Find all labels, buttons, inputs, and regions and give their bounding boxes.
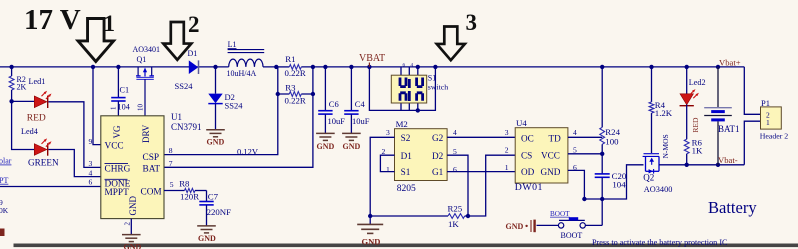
svg-text:100: 100 [605,136,619,146]
svg-text:AO3401: AO3401 [133,45,161,54]
IC U1 CN3791 body [101,116,164,219]
wire: VIN to VCC pin 9 [93,67,101,145]
svg-text:4: 4 [411,64,414,69]
svg-text:1: 1 [505,163,509,172]
svg-text:TD: TD [549,133,562,143]
diode D2 SS24 [215,67,217,94]
connector P1 Header 2 [761,107,782,129]
svg-text:C1: C1 [120,86,130,95]
svg-text:GND: GND [128,196,138,216]
svg-text:SS24: SS24 [225,101,244,111]
svg-text:BAT: BAT [143,165,161,175]
svg-text:1K: 1K [692,146,703,156]
svg-text:CN3791: CN3791 [171,122,202,132]
capacitor C1 104 [117,67,119,97]
resistor R4 1.2K [651,67,653,102]
svg-text:104: 104 [612,179,626,189]
svg-text:Header 2: Header 2 [760,132,788,141]
wire: M2 S2 pin3 to ground rail [370,137,394,216]
svg-text:Led1: Led1 [29,77,46,86]
svg-text:D2: D2 [432,151,444,161]
capacitor C7 220NF [206,191,208,202]
wire: Led1 cathode to CHRG pin 3 [49,102,101,168]
svg-text:DRV: DRV [141,124,151,143]
IC M2 8205 (dual MOSFET) body [395,129,448,181]
capacitor C20 104 [595,174,610,177]
svg-text:6: 6 [403,64,406,69]
svg-text:MPPT: MPPT [105,188,130,198]
svg-text:GND: GND [198,234,216,243]
svg-text:10uF: 10uF [352,116,370,126]
wire: M2 D1-S1 loop [380,155,394,171]
svg-text:8: 8 [169,146,173,155]
svg-text:U1: U1 [171,112,182,122]
wire: M2 D2 pin5 down to sense rail [447,155,468,216]
svg-text:AO3400: AO3400 [644,185,673,194]
ground under D2 [206,130,225,137]
resistor R2 2K [11,67,13,76]
svg-text:GND: GND [506,222,524,231]
svg-text:L1: L1 [228,40,237,49]
wire: Led4 cathode to DONE pin 4 [49,150,101,177]
inductor coil [217,66,276,68]
svg-text:GND: GND [541,167,561,177]
svg-text:1K: 1K [448,219,459,229]
svg-text:3: 3 [89,159,93,168]
svg-text:N-MOS: N-MOS [661,134,670,158]
svg-text:6: 6 [89,178,93,187]
svg-text:R25: R25 [448,203,463,213]
wire COM pin 5 [164,190,185,192]
svg-text:GREEN: GREEN [28,158,59,168]
svg-text:3: 3 [505,128,509,137]
svg-text:0.22R: 0.22R [285,96,306,106]
sheet border bottom bar [14,244,798,248]
svg-text:RED: RED [27,113,46,123]
svg-text:G1: G1 [432,167,444,177]
svg-text:0.12V: 0.12V [237,147,259,157]
svg-text:CS: CS [521,151,532,161]
svg-text:S1: S1 [428,74,436,83]
resistor R24 100 [601,67,603,127]
svg-text:COM: COM [141,188,162,198]
svg-text:8205: 8205 [397,184,416,194]
svg-text:VBAT: VBAT [359,53,385,64]
svg-text:GND: GND [362,236,381,246]
U1 GND pin wire + ground [130,219,132,235]
svg-text:Q2: Q2 [643,173,654,183]
svg-text:GND: GND [207,137,225,146]
svg-text:2: 2 [505,146,509,155]
svg-text:CHRG: CHRG [105,165,131,175]
wire + net label MPPT (clipped) [0,186,101,188]
svg-text:1: 1 [386,165,390,174]
svg-text:Vbat+: Vbat+ [719,57,741,67]
svg-text:4: 4 [573,128,577,137]
svg-text:P1: P1 [761,98,770,108]
svg-text:U4: U4 [516,118,527,128]
annotation arrow 1 [78,19,114,62]
svg-text:GND: GND [343,142,361,151]
svg-text:1: 1 [104,11,116,36]
svg-text:17 V: 17 V [24,4,81,36]
svg-text:switch: switch [428,82,448,91]
svg-text:olar: olar [0,157,12,166]
svg-text:C7: C7 [208,192,219,202]
svg-text:10: 10 [137,104,145,112]
svg-text:S2: S2 [401,133,411,143]
svg-text:R8: R8 [179,178,190,188]
red fragment at left edge (clipped GND) [0,229,5,237]
svg-text:M2: M2 [396,119,408,129]
svg-text:BAT1: BAT1 [718,124,740,134]
svg-text:1: 1 [766,118,770,127]
svg-text:SS24: SS24 [175,81,194,91]
svg-text:CSP: CSP [143,153,160,163]
svg-text:Press to activate the battery: Press to activate the battery protection… [592,238,728,247]
node: LED anode junction [9,99,13,103]
LED Led2 RED [686,67,688,94]
resistor R3 0.22R (parallel) [164,67,278,155]
svg-text:BOOT: BOOT [550,210,570,218]
svg-text:S1: S1 [401,167,411,177]
svg-text:1.2K: 1.2K [655,108,673,118]
svg-text:PT: PT [0,176,8,185]
svg-text:R1: R1 [285,54,295,64]
capacitor C6 10uF [324,67,326,110]
svg-text:220NF: 220NF [207,207,232,217]
svg-text:4: 4 [89,169,93,178]
svg-text:3: 3 [386,128,390,137]
wire: TD pin4 to R24 column [568,136,602,138]
svg-text:BOOT: BOOT [561,231,583,240]
svg-text:2K: 2K [17,83,27,92]
annotation arrow 3 [437,27,465,61]
switch S1 body [391,75,426,103]
svg-text:D1: D1 [188,49,198,58]
svg-text:2: 2 [188,12,200,37]
wire: GND pin6 down to C20 node [568,170,602,199]
svg-text:4: 4 [453,128,457,137]
svg-text:5: 5 [170,180,174,189]
wire to Led1 and Led4 anodes [12,101,35,149]
svg-text:VCC: VCC [541,151,560,161]
svg-text:C6: C6 [329,99,339,109]
wire: rail to P1 pin2 / Vbat- to pin1 [744,67,760,114]
GND power bar symbol [531,220,535,233]
wire: rail into switch S1 and bypass [369,67,435,111]
svg-text:Led4: Led4 [21,127,38,136]
svg-text:GND: GND [317,142,335,151]
svg-text:G2: G2 [432,133,444,143]
wire: main input/VBAT top rail [0,66,217,68]
svg-text:1: 1 [110,106,118,110]
battery negative rail Vbat- [659,164,744,166]
svg-text:10uF: 10uF [328,116,346,126]
capacitor C4 10uF [350,67,352,110]
svg-text:OD: OD [521,167,535,177]
svg-text:0K: 0K [0,206,9,215]
svg-text:C4: C4 [355,99,366,109]
svg-text:Led2: Led2 [689,78,706,87]
wire: M2 G1 pin6 to DW01 OD [447,171,515,173]
annotation arrow 2 [163,22,191,60]
svg-text:D1: D1 [401,151,413,161]
svg-text:0.22R: 0.22R [285,68,306,78]
wire: Q1 gate to DRV pin 10 [144,79,146,116]
svg-text:DW01: DW01 [515,182,543,193]
IC U4 DW01 body [515,128,568,183]
svg-text:120R: 120R [180,192,199,202]
wire: Q2 gate loop to C20 node [602,165,643,199]
svg-text:10uH/4A: 10uH/4A [227,69,257,78]
svg-text:VCC: VCC [105,142,124,152]
svg-text:7: 7 [169,159,173,168]
resistor R6 1K [686,105,688,140]
wire: VCC pin5 to column [568,153,602,155]
net label VBAT [368,63,370,67]
svg-text:2: 2 [124,222,132,226]
svg-text:VG: VG [112,125,122,138]
svg-text:Vbat-: Vbat- [718,155,738,165]
svg-text:Q1: Q1 [137,55,147,64]
svg-text:3: 3 [466,10,478,35]
svg-text:GND: GND [124,242,142,249]
svg-text:104: 104 [118,103,130,112]
svg-text:OC: OC [521,133,534,143]
battery BAT1 [717,67,719,107]
svg-text:RED: RED [691,117,700,133]
svg-text:6: 6 [453,165,457,174]
ground rail + hatched ground [370,215,448,217]
svg-text:9: 9 [89,137,93,146]
transistor Q2 AO3400 (N-MOSFET) [643,154,659,172]
node: rail junction dots [9,65,13,69]
svg-text:Battery: Battery [708,198,757,217]
wire: M2 G2 pin4 to DW01 OC [447,136,515,138]
push button BOOT [585,224,602,226]
